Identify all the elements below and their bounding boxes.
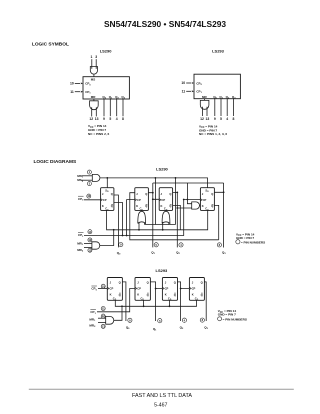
pin circle 4 (Q2) xyxy=(179,243,183,247)
junction Qbar-CP1 rail xyxy=(122,235,124,237)
svg-text:LS293: LS293 xyxy=(156,268,169,273)
wire pin1 to MS gate xyxy=(91,59,93,69)
svg-text:Q1: Q1 xyxy=(153,327,157,332)
svg-text:Q: Q xyxy=(147,293,149,297)
wire box to MR gate xyxy=(204,99,206,101)
svg-text:MR2: MR2 xyxy=(77,248,84,253)
svg-text:12: 12 xyxy=(89,117,93,121)
svg-text:CP: CP xyxy=(137,286,141,290)
svg-text:MR2: MR2 xyxy=(89,323,96,328)
wire Q2 out xyxy=(226,99,228,116)
pin circle 4 (Q2) xyxy=(182,318,186,322)
pin circle 5 (Q1) xyxy=(154,243,158,247)
svg-text:Q: Q xyxy=(119,281,121,285)
svg-text:4: 4 xyxy=(226,117,228,121)
svg-text:Q: Q xyxy=(145,204,147,208)
svg-text:LS290: LS290 xyxy=(100,49,113,54)
svg-text:K: K xyxy=(137,293,139,297)
wire MS rail xyxy=(100,178,208,188)
arrowhead pin10 xyxy=(192,82,194,84)
wire Q3bar net xyxy=(130,193,219,240)
svg-text:CP: CP xyxy=(203,198,207,202)
junction Q2 a xyxy=(176,192,178,194)
wire Q3 net xyxy=(214,183,223,248)
and-gate MR xyxy=(92,242,100,249)
svg-text:MR1: MR1 xyxy=(89,317,96,322)
wire gate3 left leg xyxy=(162,222,164,230)
junction MS riser a xyxy=(155,177,157,179)
wire MS gate to box xyxy=(93,74,95,77)
svg-text:GND = PIN 7: GND = PIN 7 xyxy=(218,313,236,317)
flip-flop FF2 (LS293) xyxy=(135,278,150,301)
wire MS riser a xyxy=(154,178,156,225)
svg-text:CD: CD xyxy=(168,297,172,302)
wire CP1 to FF2 xyxy=(97,289,135,312)
footer rule xyxy=(29,388,294,390)
wire gate2 left leg xyxy=(138,222,140,230)
svg-text:K: K xyxy=(136,204,138,208)
svg-text:3: 3 xyxy=(95,55,97,59)
svg-text:9: 9 xyxy=(214,117,216,121)
junction Q2-CP4 xyxy=(180,288,182,290)
svg-text:13: 13 xyxy=(95,117,99,121)
wire Q0 out xyxy=(103,99,105,116)
and-gate MR (symbol bottom) xyxy=(90,101,99,110)
wire CP1 to FF2 CP xyxy=(127,200,135,236)
LS293 symbol body xyxy=(194,74,240,99)
svg-text:CP1: CP1 xyxy=(196,90,202,95)
svg-text:Q: Q xyxy=(111,192,113,196)
wire Q2 net xyxy=(173,192,192,247)
wire Q3 net xyxy=(204,282,206,321)
svg-text:5: 5 xyxy=(109,117,111,121)
svg-text:CP1: CP1 xyxy=(85,90,91,95)
svg-text:Q3: Q3 xyxy=(222,250,226,255)
junction FF3 CD xyxy=(169,305,171,307)
svg-text:MR: MR xyxy=(91,95,96,99)
svg-text:Q: Q xyxy=(111,204,113,208)
flip-flop FF2 (LS290) xyxy=(135,188,149,211)
wire CP0 xyxy=(98,287,107,289)
junction CP1-FF2 riser xyxy=(126,235,128,237)
svg-text:CP1: CP1 xyxy=(78,233,84,238)
arrowhead pin11 xyxy=(81,91,83,93)
wire Q1 net xyxy=(150,282,162,321)
wire FF3 Qbar to CD rail xyxy=(173,205,181,229)
svg-text:LS293: LS293 xyxy=(212,49,225,54)
or-gate below FF3 xyxy=(162,210,170,223)
wire Q0 net xyxy=(114,195,119,247)
pin circle 13 (MR2) xyxy=(88,248,92,252)
svg-text:Q2: Q2 xyxy=(180,325,184,330)
svg-text:MR1: MR1 xyxy=(77,241,84,246)
svg-text:9: 9 xyxy=(103,117,105,121)
pin circle 11 (CP1) xyxy=(101,307,105,311)
pin circle 8 (Q3) xyxy=(200,318,204,322)
wire FF1 Qbar stub xyxy=(114,203,123,236)
svg-text:13: 13 xyxy=(206,117,210,121)
pin circle 12 (MR1) xyxy=(88,238,92,242)
svg-text:K: K xyxy=(161,204,163,208)
legend pin-number circle xyxy=(218,317,222,321)
and-gate MR (symbol bottom) xyxy=(200,100,209,109)
flip-flop FF4 (LS293) xyxy=(189,278,204,301)
svg-text:12: 12 xyxy=(200,117,204,121)
flip-flop FF1 (LS293) xyxy=(107,278,122,301)
wire gate2 right leg xyxy=(144,223,146,225)
junction Q2 b xyxy=(176,207,178,209)
svg-text:CP: CP xyxy=(165,286,169,290)
wire MR out xyxy=(100,230,114,246)
svg-text:10: 10 xyxy=(70,82,74,86)
wire Q1 net xyxy=(148,183,223,247)
junction gate2 leg on CD rail xyxy=(138,229,140,231)
wire pin13 xyxy=(95,107,97,116)
pin circle 9 (Q0) xyxy=(119,243,123,247)
junction MR riser on CD rail xyxy=(121,305,123,307)
svg-text:Q: Q xyxy=(169,192,171,196)
pin circle 13 (MR2) xyxy=(101,324,105,328)
svg-text:LS290: LS290 xyxy=(156,166,169,171)
svg-text:11: 11 xyxy=(182,90,186,94)
svg-text:Q2: Q2 xyxy=(176,251,180,256)
junction CP4 line b xyxy=(187,199,189,201)
junction FF2 CD xyxy=(143,305,145,307)
flip-flop FF4 (LS290) xyxy=(200,188,214,211)
svg-text:SD: SD xyxy=(205,188,209,193)
svg-text:K: K xyxy=(110,293,112,297)
svg-text:J: J xyxy=(165,281,167,285)
wire CP1 rail xyxy=(84,200,200,236)
flip-flop FF3 (LS293) xyxy=(162,278,177,301)
wire Q1 out xyxy=(109,99,111,116)
svg-text:11: 11 xyxy=(70,90,74,94)
svg-text:SD: SD xyxy=(105,188,109,193)
pin circle 10 (CP0) xyxy=(87,194,91,198)
junction MS-FF1 xyxy=(106,177,108,179)
wire Q3 out xyxy=(232,99,234,116)
svg-text:K: K xyxy=(202,204,204,208)
svg-text:CD: CD xyxy=(205,207,209,212)
wire pin3 to MS gate xyxy=(95,59,97,69)
flip-flop FF3 (LS290) xyxy=(159,188,172,211)
pin circle 11 (CP1) xyxy=(88,230,92,234)
svg-text:Q0: Q0 xyxy=(117,251,121,256)
wire MR1 xyxy=(84,243,92,245)
wire FF2 CD stub xyxy=(143,300,145,306)
wire pin10 xyxy=(75,82,80,84)
svg-text:Q: Q xyxy=(211,204,213,208)
wire FF3 CD stub xyxy=(169,300,171,306)
svg-text:J: J xyxy=(137,281,139,285)
svg-text:FAST AND LS TTL DATA: FAST AND LS TTL DATA xyxy=(132,393,192,399)
wire MR1 xyxy=(98,317,106,319)
svg-text:J: J xyxy=(110,281,112,285)
svg-text:CP: CP xyxy=(192,286,196,290)
svg-text:Q1: Q1 xyxy=(151,251,155,256)
svg-text:LOGIC SYMBOL: LOGIC SYMBOL xyxy=(32,42,69,48)
svg-text:5-467: 5-467 xyxy=(154,403,167,409)
svg-text:Q: Q xyxy=(145,192,147,196)
svg-text:CD: CD xyxy=(195,297,199,302)
pin circle 5 (Q1) xyxy=(158,319,162,323)
svg-text:J: J xyxy=(202,192,204,196)
arrowhead pin10 xyxy=(81,83,83,85)
junction Q1 b xyxy=(152,198,154,200)
wire MR2 xyxy=(84,247,92,249)
svg-text:Q: Q xyxy=(119,293,121,297)
svg-text:CP1: CP1 xyxy=(90,310,96,315)
flip-flop FF1 (LS290) xyxy=(101,188,114,211)
svg-text:MS: MS xyxy=(91,78,96,82)
svg-text:Q: Q xyxy=(174,281,176,285)
svg-text:= PIN NUMBERS: = PIN NUMBERS xyxy=(241,240,265,244)
svg-text:8: 8 xyxy=(232,117,234,121)
arrowhead pin11 xyxy=(192,90,194,92)
junction Q3 xyxy=(223,191,225,193)
svg-text:J: J xyxy=(136,192,138,196)
svg-text:Q3: Q3 xyxy=(204,326,208,331)
svg-text:CP0: CP0 xyxy=(196,81,202,86)
wire pin11 xyxy=(75,91,80,93)
pin circle 1 (MS1) xyxy=(87,170,91,174)
wire CD rail xyxy=(107,210,208,229)
junction Q1-CP3 xyxy=(155,288,157,290)
svg-text:J: J xyxy=(192,281,194,285)
pin circle 12 (MR1) xyxy=(101,314,105,318)
wire Q2 net xyxy=(178,282,190,321)
LS290 symbol body xyxy=(83,77,129,99)
svg-text:CD: CD xyxy=(113,297,117,302)
svg-text:= PIN NUMBERS: = PIN NUMBERS xyxy=(223,317,247,321)
wire pin11 xyxy=(186,90,191,92)
svg-text:CP: CP xyxy=(110,286,114,290)
or-gate below FF2 xyxy=(138,210,146,223)
svg-text:Q: Q xyxy=(169,204,171,208)
svg-text:CP0: CP0 xyxy=(85,82,91,87)
svg-text:J: J xyxy=(161,192,163,196)
svg-text:1: 1 xyxy=(90,55,92,59)
svg-text:K: K xyxy=(165,293,167,297)
wire Q1 out xyxy=(220,99,222,116)
and-gate MS xyxy=(92,174,100,181)
pin circle 8 (Q3) xyxy=(217,243,221,247)
junction CP4 line xyxy=(183,199,185,201)
wire Q0 net xyxy=(122,282,126,321)
junction MR riser on CD rail xyxy=(113,229,115,231)
svg-text:CP: CP xyxy=(103,198,107,202)
svg-text:J: J xyxy=(102,192,104,196)
svg-text:8: 8 xyxy=(122,117,124,121)
svg-text:GND = PIN 7: GND = PIN 7 xyxy=(236,236,254,240)
svg-text:CP: CP xyxy=(161,198,165,202)
junction MS riser b xyxy=(175,177,177,179)
svg-text:5: 5 xyxy=(220,117,222,121)
svg-text:CD: CD xyxy=(141,297,145,302)
svg-text:Q: Q xyxy=(201,293,203,297)
wire MS riser b xyxy=(175,178,177,225)
svg-text:Q0: Q0 xyxy=(126,325,130,330)
and-gate K4 xyxy=(192,202,200,209)
wire gate3 right leg xyxy=(168,223,170,225)
wire box to MR gate xyxy=(93,99,95,101)
wire MR2 xyxy=(98,322,106,324)
svg-text:CP0: CP0 xyxy=(78,197,84,202)
legend pin-number circle xyxy=(236,240,240,244)
pin circle 10 (CP0) xyxy=(101,284,105,288)
svg-text:Q: Q xyxy=(211,192,213,196)
wire pin12 xyxy=(201,107,203,116)
wire pin12 xyxy=(91,107,93,116)
wire pin10 xyxy=(186,82,191,84)
pin circle 3 (MS2) xyxy=(87,182,91,186)
svg-text:CD: CD xyxy=(105,207,109,212)
wire MS1 xyxy=(82,175,93,177)
wire MR out xyxy=(114,306,122,320)
junction gate3 leg on CD rail xyxy=(162,229,164,231)
svg-text:Q: Q xyxy=(201,281,203,285)
junction Q1 a xyxy=(152,192,154,194)
svg-text:CP: CP xyxy=(137,198,141,202)
svg-text:SN54/74LS290 • SN54/74LS293: SN54/74LS290 • SN54/74LS293 xyxy=(104,19,226,29)
svg-text:CP0: CP0 xyxy=(91,287,97,292)
wire set rail xyxy=(145,224,176,226)
svg-text:NC = PINS 1, 2, 3, 6: NC = PINS 1, 2, 3, 6 xyxy=(199,132,227,136)
wire pin13 xyxy=(206,107,208,116)
wire Q3 out xyxy=(122,99,124,116)
wire Q2 out xyxy=(116,99,118,116)
wire CP0 xyxy=(84,199,101,201)
svg-text:NC = PINS 2, 6: NC = PINS 2, 6 xyxy=(88,132,110,136)
svg-text:Q: Q xyxy=(147,281,149,285)
wire MS2 xyxy=(82,179,93,181)
svg-text:10: 10 xyxy=(181,81,185,85)
pin circle 9 (Q0) xyxy=(128,318,132,322)
svg-text:K: K xyxy=(102,204,104,208)
wire MS to FF1 SD xyxy=(106,178,108,188)
svg-text:K: K xyxy=(192,293,194,297)
and-gate MR xyxy=(106,316,114,324)
wire Q0 out xyxy=(214,99,216,116)
and-gate MS inputs (symbol top) xyxy=(90,67,97,75)
svg-text:LOGIC DIAGRAMS: LOGIC DIAGRAMS xyxy=(34,159,77,165)
svg-text:4: 4 xyxy=(116,117,118,121)
wire K4 out xyxy=(199,205,202,207)
svg-text:Q: Q xyxy=(174,293,176,297)
wire CD rail xyxy=(115,300,196,306)
